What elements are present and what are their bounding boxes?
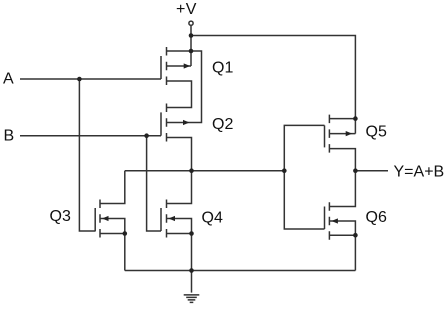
- transistor Q1 body lead: [167, 65, 192, 67]
- wire: input A: [20, 78, 161, 80]
- transistor Q4 body lead tied to source: [167, 219, 192, 234]
- transistor Q2 gate bar: [160, 112, 162, 135]
- svg-text:Y=A+B: Y=A+B: [394, 164, 445, 181]
- svg-text:B: B: [4, 128, 15, 145]
- transistor Q5 channel (3 segments): [328, 115, 330, 153]
- transistor Q3 body lead tied to source: [100, 219, 125, 234]
- junction dot: output Y node: [353, 168, 358, 173]
- transistor Q4 body arrow (NMOS): [169, 216, 176, 221]
- wire: B branch down to Q4 gate: [147, 136, 161, 231]
- transistor Q1 drain lead (top): [167, 50, 192, 52]
- svg-text:Q5: Q5: [366, 124, 387, 141]
- wire: A branch down to Q3 gate: [79, 79, 95, 231]
- transistor Q2 body arrow (PMOS): [183, 120, 190, 125]
- transistor Q4 gate bar: [160, 208, 162, 231]
- node +V: supply terminal circle: [189, 21, 193, 25]
- svg-text:Q6: Q6: [366, 209, 387, 226]
- svg-text:Q1: Q1: [212, 60, 233, 77]
- transistor Q3 body arrow (NMOS): [102, 216, 109, 221]
- junction dot: input B branch: [144, 133, 149, 138]
- transistor Q6 gate bar: [324, 207, 326, 230]
- wire: NOR node down to Q3 drain: [100, 171, 125, 204]
- wire: +V stem down to Q1 source/body node: [190, 26, 192, 66]
- wire: input B: [20, 135, 161, 137]
- transistor Q1 channel (3 segments): [166, 47, 168, 85]
- transistor Q5 body lead tied to source: [329, 119, 355, 134]
- wire: PMOS body rail from +V node to Q2 body: [167, 51, 202, 123]
- transistor Q6 body arrow (NMOS): [331, 218, 338, 223]
- wire: Q5 drain down through output node to Q6 drain: [329, 149, 355, 207]
- transistor Q6 channel (3 segments): [328, 202, 330, 239]
- transistor Q5 body arrow (PMOS): [346, 131, 353, 136]
- wire: ground rail: [125, 270, 356, 272]
- wire: Q4 source down to ground rail: [167, 234, 192, 271]
- ground symbol bars: [184, 295, 200, 303]
- transistor Q5 source lead (top): [329, 118, 355, 120]
- junction dot: Q3 source/body: [123, 231, 128, 236]
- wire: +V rail to right column and down to Q5 source: [191, 36, 355, 119]
- transistor Q2 channel (3 segments): [166, 104, 168, 142]
- junction dot: Q6 source/body: [353, 233, 358, 238]
- junction dot: NOR node at Q4 drain column: [189, 168, 194, 173]
- wire: Q1 source to Q2 drain link: [167, 81, 192, 108]
- junction dot: Q1 source/body at +V: [189, 49, 194, 54]
- wire: Q2 source down through NOR node to Q4 drain: [167, 138, 192, 204]
- transistor Q3 channel (3 segments): [99, 200, 101, 238]
- transistor Q1 gate bar: [160, 56, 162, 79]
- transistor Q6 body lead tied to source: [329, 221, 355, 235]
- transistor Q1 body arrow (PMOS): [184, 63, 191, 68]
- transistor Q3 gate bar: [94, 208, 96, 231]
- wire: NOR output node horizontal: [125, 170, 284, 172]
- wire: output Y: [355, 170, 388, 172]
- svg-text:+V: +V: [176, 1, 197, 18]
- wire: inverter gate rail from NOR node to Q5/Q6 gates: [284, 125, 324, 229]
- junction dot: ground rail tap: [189, 268, 194, 273]
- wire: Q6 source down to ground rail: [329, 235, 355, 270]
- transistor Q5 gate bar: [324, 125, 326, 147]
- junction dot: +V rail tap: [189, 33, 194, 38]
- junction dot: Q5 source at +V: [353, 116, 358, 121]
- svg-text:Q2: Q2: [212, 116, 233, 133]
- svg-text:Q4: Q4: [202, 210, 223, 227]
- junction dot: Q4 source/body: [189, 231, 194, 236]
- wire: Q3 source down to ground rail: [100, 234, 125, 271]
- transistor Q4 channel (3 segments): [166, 200, 168, 238]
- junction dot: NOR node at inverter gate rail: [282, 168, 287, 173]
- junction dot: input A branch: [77, 77, 82, 82]
- svg-text:Q3: Q3: [50, 208, 71, 225]
- svg-text:A: A: [3, 71, 14, 88]
- ground symbol stem: [191, 271, 193, 293]
